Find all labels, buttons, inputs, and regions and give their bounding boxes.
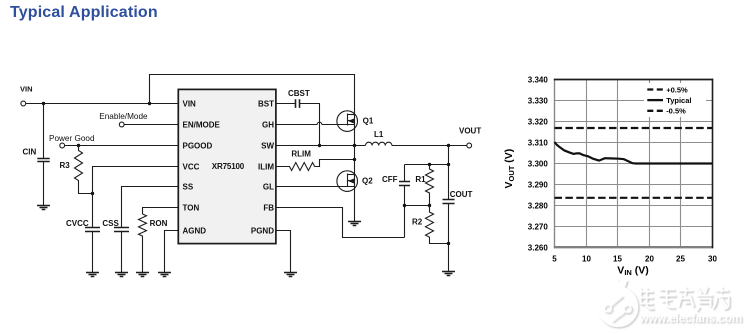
wire PGOOD [65, 145, 179, 147]
svg-text:15: 15 [613, 254, 622, 263]
svg-text:PGOOD: PGOOD [183, 141, 213, 150]
plot border top [554, 79, 713, 81]
svg-text:TON: TON [183, 203, 200, 212]
svg-text:SS: SS [183, 182, 194, 191]
wire TON to RON [143, 208, 179, 215]
svg-text:CVCC: CVCC [66, 219, 89, 228]
svg-text:AGND: AGND [183, 226, 207, 235]
svg-text:SW: SW [261, 141, 274, 150]
ground CSS [115, 273, 128, 277]
transistor Q1 [337, 111, 374, 132]
svg-text:3.330: 3.330 [528, 96, 549, 105]
svg-text:5: 5 [552, 254, 557, 263]
resistor RON [139, 214, 168, 273]
wire GH to Q1 gate with hop [276, 122, 355, 124]
svg-text:Q1: Q1 [363, 117, 374, 126]
svg-text:R2: R2 [412, 217, 423, 226]
svg-text:GH: GH [262, 120, 274, 129]
ground CIN [37, 206, 50, 210]
svg-text:+0.5%: +0.5% [666, 85, 688, 94]
svg-text:www.elecfans.com: www.elecfans.com [639, 313, 742, 325]
svg-text:VIN: VIN [20, 85, 33, 94]
svg-text:EN/MODE: EN/MODE [183, 120, 221, 129]
node VOUT terminal [459, 126, 481, 148]
junction COUT top tap [447, 163, 450, 166]
legend entry Typical [647, 96, 691, 105]
svg-text:RLIM: RLIM [291, 150, 311, 159]
svg-text:10: 10 [582, 254, 591, 263]
capacitor COUT [443, 190, 473, 271]
wire top rail to Q1 drain [150, 75, 355, 146]
wire ILIM through RLIM to SW node [276, 160, 355, 171]
ground Q2 source [348, 222, 361, 226]
junction RLIM on Q2 drain [353, 158, 356, 161]
svg-text:CSS: CSS [102, 219, 119, 228]
junction VOUT tap [447, 144, 450, 147]
capacitor CIN [23, 104, 50, 206]
svg-text:R3: R3 [60, 161, 71, 170]
ground CVCC [86, 273, 99, 277]
svg-text:VCC: VCC [183, 162, 200, 171]
wire FB to divider [276, 208, 405, 238]
svg-text:3.310: 3.310 [528, 138, 549, 147]
svg-text:R1: R1 [415, 175, 426, 184]
svg-text:XR75100: XR75100 [212, 162, 245, 171]
wire Q2 drain to ground [354, 146, 356, 222]
svg-text:-0.5%: -0.5% [666, 107, 686, 116]
resistor R1 [415, 165, 433, 206]
svg-text:3.340: 3.340 [528, 75, 549, 84]
svg-text:BST: BST [258, 99, 274, 108]
node Enable/Mode terminal [99, 112, 148, 127]
wire L1 to VOUT [392, 145, 467, 147]
chart: Vout vs Vin [503, 75, 717, 277]
junction Q1 source SW [353, 144, 356, 147]
svg-text:3.290: 3.290 [528, 180, 549, 189]
wire EN/MODE [124, 124, 178, 126]
resistor R3 [60, 146, 93, 194]
curve -0.5% limit [555, 197, 713, 199]
y axis labels [528, 75, 549, 252]
wire CBST to SW node [300, 104, 320, 146]
svg-text:VIN (V): VIN (V) [617, 264, 648, 277]
svg-text:COUT: COUT [450, 190, 473, 199]
svg-text:GL: GL [263, 182, 274, 191]
ground RON [136, 273, 149, 277]
op-amp U1 XR75100 IC body [178, 89, 276, 243]
svg-text:CIN: CIN [23, 148, 37, 157]
junction CIN tap [42, 102, 45, 105]
junction top-rail tap [148, 102, 151, 105]
node Power Good terminal [49, 134, 95, 148]
svg-text:L1: L1 [374, 130, 384, 139]
ground AGND [158, 273, 171, 277]
legend background [644, 83, 706, 117]
transistor Q2 [337, 171, 373, 192]
plot border right [712, 79, 714, 249]
svg-text:CFF: CFF [382, 175, 398, 184]
svg-text:Enable/Mode: Enable/Mode [99, 112, 148, 121]
legend entry -0.5% [647, 107, 686, 116]
junction R3 top [77, 144, 80, 147]
junction R2 bottom COUT [447, 242, 450, 245]
svg-text:CBST: CBST [288, 89, 310, 98]
x axis labels [552, 254, 717, 263]
wire VCC to CVCC [93, 167, 179, 228]
junction R1 top [428, 163, 431, 166]
svg-text:30: 30 [708, 254, 717, 263]
svg-text:20: 20 [645, 254, 654, 263]
svg-text:25: 25 [676, 254, 685, 263]
capacitor CSS [102, 219, 129, 273]
capacitor CVCC [66, 219, 100, 273]
curve Typical [555, 142, 713, 164]
svg-text:FB: FB [263, 203, 274, 212]
node VIN terminal [20, 85, 33, 106]
svg-text:VOUT: VOUT [459, 126, 481, 135]
wire FB node link [405, 205, 430, 207]
plot border left [554, 79, 556, 248]
wire VOUT down to COUT and R2 foot [448, 146, 450, 200]
legend entry +0.5% [647, 85, 688, 94]
wire BST to CBST [276, 103, 296, 105]
inductor L1 [366, 130, 392, 146]
junction FB node left [403, 204, 406, 207]
svg-text:3.280: 3.280 [528, 201, 549, 210]
svg-text:3.300: 3.300 [528, 159, 549, 168]
wire SS to CSS [122, 187, 179, 228]
plot border bottom [554, 246, 714, 248]
junction R1 R2 midpoint [428, 204, 431, 207]
junction CBST bottom on SW [318, 144, 321, 147]
svg-text:Typical: Typical [666, 96, 691, 105]
svg-text:RON: RON [150, 219, 168, 228]
watermark elecfans logo and text [598, 280, 743, 328]
svg-text:3.270: 3.270 [528, 222, 549, 231]
svg-text:VIN: VIN [183, 99, 197, 108]
junction R3 bottom on VCC line [91, 192, 94, 195]
svg-text:ILIM: ILIM [258, 162, 274, 171]
wire VIN to IC [26, 103, 179, 105]
svg-text:Q2: Q2 [362, 177, 373, 186]
svg-text:3.320: 3.320 [528, 117, 549, 126]
wire GL to Q2 gate [276, 186, 355, 188]
wire SW [276, 145, 366, 147]
svg-text:PGND: PGND [251, 226, 274, 235]
ground COUT [442, 272, 455, 276]
wire AGND to ground [165, 231, 179, 273]
svg-text:VOUT (V): VOUT (V) [503, 149, 516, 189]
resistor R2 [412, 206, 449, 244]
wire feedback top link [405, 164, 449, 166]
wire PGND to ground [276, 231, 291, 273]
curve +0.5% limit [555, 127, 713, 129]
gridlines [555, 80, 713, 248]
ground PGND [284, 273, 297, 277]
capacitor CBST [288, 89, 310, 108]
svg-text:Power Good: Power Good [49, 134, 95, 143]
capacitor CFF [382, 165, 410, 238]
svg-text:3.260: 3.260 [528, 243, 549, 252]
